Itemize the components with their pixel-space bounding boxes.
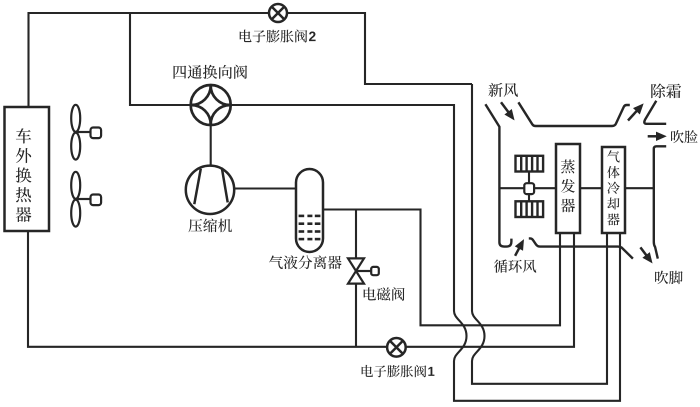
evaporator box	[556, 144, 580, 233]
label: foot vent (吹脚)	[655, 271, 683, 285]
wire: four-way valve bottom port to compressor	[210, 124, 212, 166]
label: defrost (除霜)	[651, 84, 681, 99]
arrow: defrost outlet	[628, 104, 643, 120]
wire: four-way valve right port -> drop (hop) -> bottom outer run -> gas cooler right pipe	[229, 105, 620, 401]
wire: left drop from top line to outdoor HX	[27, 12, 29, 107]
label: electronic expansion valve 2 (电子膨胀阀2)	[240, 30, 316, 43]
wire: outdoor HX bottom -> main bottom line -> EEV1 -> evaporator right pipe	[28, 231, 574, 347]
arrow: face vent	[648, 132, 666, 140]
electronic expansion valve 2 (circle with X)	[269, 4, 287, 22]
label: electronic expansion valve 1 (电子膨胀阀1)	[362, 365, 435, 377]
solenoid valve (bowtie)	[348, 258, 379, 283]
compressor	[186, 166, 234, 214]
electronic expansion valve 1 (circle with X)	[387, 338, 406, 357]
wire: top line from outdoor HX top to EEV2 to right drop	[29, 13, 473, 84]
HVAC duct defrost outlet right edge and top-right edge	[644, 101, 666, 124]
outdoor fan 1	[71, 105, 101, 160]
HVAC duct top edge: fresh-air right slant to defrost left slant	[518, 102, 629, 126]
wire: compressor outlet to separator	[233, 187, 297, 189]
wire: second drop from top line to four-way valve left port	[130, 13, 192, 105]
wire: EEV2 branch drop (hop) -> inner bottom run -> gas cooler left pipe	[472, 84, 607, 384]
HVAC duct bottom edge: recirc right flap to foot-vent left slant	[529, 238, 633, 258]
label: four-way reversing valve (四通换向阀)	[174, 65, 248, 79]
label: compressor (压缩机)	[188, 219, 232, 233]
arrow: fresh air into duct	[501, 102, 514, 119]
blower fan shaft	[528, 172, 530, 202]
duct internal shelf line	[501, 187, 655, 189]
blower fan upper rotor (hatched)	[516, 156, 544, 172]
outdoor fan 2	[71, 172, 101, 227]
label: gas cooler (气体冷却器)	[607, 150, 620, 225]
blower fan lower rotor (hatched)	[516, 201, 544, 217]
wire: separator outlet -> drop -> middle bottom run -> evaporator left pipe	[322, 210, 560, 326]
blower fan motor hub	[524, 183, 534, 194]
gas-liquid separator (accumulator)	[296, 169, 323, 252]
wire: solenoid valve down to main bottom line	[355, 283, 357, 347]
label: face vent (吹脸)	[671, 130, 698, 143]
label: evaporator (蒸发器)	[561, 160, 575, 213]
HVAC duct left wall with fresh-air inlet slant and recirc opening curl	[485, 104, 511, 246]
arrow: recirculated air into duct	[515, 240, 523, 256]
label: solenoid valve (电磁阀)	[364, 287, 405, 300]
label: outdoor heat exchanger (车外换热器)	[16, 128, 32, 222]
wire: branch down to solenoid valve	[355, 210, 357, 260]
label: recirculated air (循环风)	[494, 259, 536, 272]
HVAC duct face-vent lower cap, right wall, foot-vent right slant	[654, 146, 666, 258]
label: fresh air (新风)	[489, 83, 518, 97]
gas cooler box	[602, 147, 625, 233]
separator liquid level dashes	[299, 216, 321, 239]
four-way reversing valve	[191, 85, 231, 125]
arrow: foot vent	[640, 247, 651, 262]
outdoor heat exchanger box	[5, 107, 50, 231]
label: gas-liquid separator (气液分离器)	[269, 255, 342, 269]
